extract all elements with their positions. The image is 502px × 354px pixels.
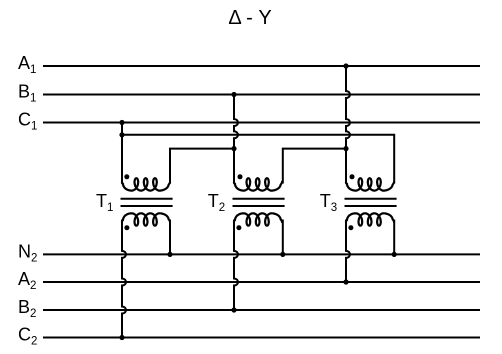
transformer T2 secondary phase dot bbox=[236, 225, 241, 230]
transformer T3 core bbox=[345, 199, 397, 206]
transformer T3 primary winding bbox=[346, 178, 394, 190]
junction T2 secondary left x B2 bbox=[231, 307, 236, 312]
junction A1 x T3 left bbox=[343, 63, 348, 68]
transformer T1 primary winding bbox=[122, 178, 170, 190]
transformer T2 primary phase dot bbox=[238, 174, 243, 179]
junction T3 secondary left x A2 bbox=[343, 279, 348, 284]
junction delta line x T1 left bbox=[119, 132, 124, 137]
wire T1 secondary right to N2 bbox=[169, 220, 171, 255]
transformer T1 core bbox=[121, 199, 173, 206]
junction jumper x T2 left bbox=[231, 146, 236, 151]
wire T1 secondary left to C2 bbox=[122, 220, 126, 338]
wire C1 to T1 primary left bbox=[121, 123, 123, 184]
transformer T2 primary winding bbox=[234, 178, 282, 190]
transformer T1 secondary phase dot bbox=[124, 225, 129, 230]
svg-text:A2: A2 bbox=[18, 269, 36, 292]
svg-text:N2: N2 bbox=[18, 242, 37, 265]
transformer T3 secondary phase dot bbox=[348, 225, 353, 230]
wire T2 secondary right to N2 bbox=[282, 220, 284, 255]
wire jumper T1 primary right to T2 left bbox=[170, 149, 234, 184]
transformer T2 core bbox=[233, 199, 285, 206]
wire T3 secondary left to A2 bbox=[346, 220, 350, 283]
transformer T3 primary phase dot bbox=[350, 174, 355, 179]
svg-text:C2: C2 bbox=[18, 325, 37, 348]
wire line B1 bbox=[43, 94, 480, 96]
transformer T1 primary phase dot bbox=[124, 174, 129, 179]
junction T1 secondary right x N2 bbox=[167, 252, 172, 257]
svg-text:T1: T1 bbox=[96, 191, 113, 214]
svg-text:C1: C1 bbox=[18, 110, 37, 133]
junction jumper x T3 left bbox=[343, 146, 348, 151]
wire line N2 bbox=[43, 253, 480, 255]
wire line C1 bbox=[43, 122, 480, 124]
wire line B2 bbox=[43, 309, 480, 311]
junction T3 secondary right x N2 bbox=[392, 252, 397, 257]
junction C1 x T1 left bbox=[119, 120, 124, 125]
wire line C2 bbox=[43, 337, 480, 339]
wire delta crossover C1 to T3 primary right bbox=[122, 135, 394, 184]
svg-text:B1: B1 bbox=[18, 82, 36, 105]
transformer T1 secondary winding bbox=[122, 213, 170, 225]
svg-text:B2: B2 bbox=[18, 297, 36, 320]
junction T1 secondary left x C2 bbox=[119, 335, 124, 340]
wire line A1 bbox=[43, 65, 480, 67]
svg-text:Δ - Y: Δ - Y bbox=[228, 7, 271, 29]
svg-text:T3: T3 bbox=[320, 191, 337, 214]
wire T3 secondary right to N2 bbox=[393, 220, 395, 255]
wire A1 to T3 primary left bbox=[346, 66, 350, 184]
svg-text:A1: A1 bbox=[18, 53, 36, 76]
wire jumper T2 primary right to T3 left bbox=[283, 149, 346, 184]
wire B1 to T2 primary left bbox=[234, 95, 238, 184]
junction T2 secondary right x N2 bbox=[280, 252, 285, 257]
wire line A2 bbox=[43, 281, 480, 283]
svg-text:T2: T2 bbox=[208, 191, 225, 214]
wire T2 secondary left to B2 bbox=[234, 220, 238, 311]
junction B1 x T2 left bbox=[231, 92, 236, 97]
transformer T2 secondary winding bbox=[234, 213, 282, 225]
transformer T3 secondary winding bbox=[346, 213, 394, 225]
